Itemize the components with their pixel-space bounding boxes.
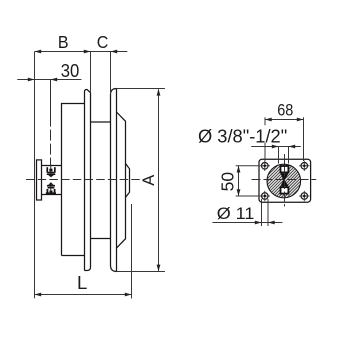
svg-text:Ø 3/8"-1/2": Ø 3/8"-1/2"	[198, 125, 287, 146]
svg-text:A: A	[139, 174, 158, 186]
svg-text:68: 68	[277, 102, 293, 120]
svg-text:B: B	[58, 32, 69, 52]
svg-text:50: 50	[218, 172, 238, 192]
svg-text:30: 30	[61, 60, 80, 81]
svg-text:C: C	[97, 32, 109, 52]
svg-text:L: L	[77, 272, 87, 293]
svg-text:Ø 11: Ø 11	[217, 204, 255, 223]
